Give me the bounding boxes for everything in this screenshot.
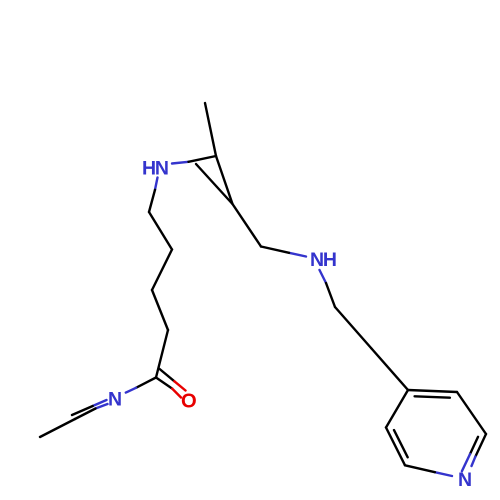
svg-text:N: N [108, 389, 122, 411]
svg-text:NH: NH [310, 249, 336, 271]
svg-text:O: O [181, 390, 197, 412]
svg-text:N: N [458, 469, 472, 491]
svg-text:HN: HN [142, 158, 168, 180]
